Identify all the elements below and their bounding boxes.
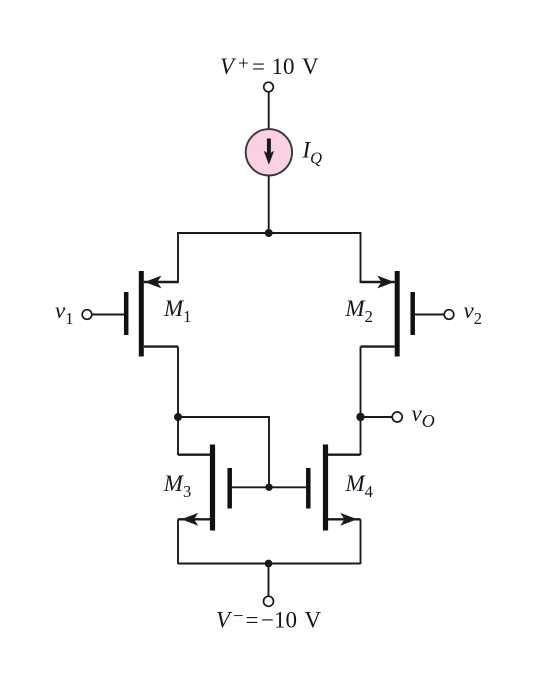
label V+ supply (220, 54, 319, 80)
wire: node down to M3 drain (177, 417, 179, 455)
label V- supply (216, 606, 322, 632)
wire: rail down to M2 source (360, 232, 362, 283)
wire: node across and down to mirror gates (178, 417, 269, 487)
svg-text:V: V (305, 607, 322, 632)
svg-text:V: V (216, 607, 233, 632)
transistor M2 (361, 271, 445, 357)
svg-text:M3: M3 (163, 471, 191, 501)
node: mirror gate tie (265, 484, 272, 491)
terminal vO (392, 412, 402, 422)
svg-text:v2: v2 (464, 298, 482, 328)
svg-text:=: = (246, 607, 259, 632)
svg-text:IQ: IQ (302, 138, 323, 168)
svg-text:V: V (220, 54, 237, 79)
wire: M3 source down to bottom rail (177, 519, 179, 564)
wire: current source to tail node (268, 176, 270, 234)
terminal v2 (444, 310, 454, 320)
wire: M2 drain down to output node (360, 347, 362, 417)
svg-text:−10: −10 (261, 607, 297, 632)
transistor M1 (92, 271, 178, 357)
terminal v1 (82, 310, 92, 320)
node: V- junction (265, 560, 273, 568)
node: tail junction (265, 229, 273, 237)
wire: rail down to M1 source (177, 232, 179, 283)
svg-text:M4: M4 (345, 471, 373, 501)
terminal V+ (264, 82, 274, 92)
wire: M4 source down to bottom rail (360, 519, 362, 564)
svg-text:−: − (233, 606, 244, 627)
wire: output lead (361, 416, 393, 418)
transistor M4 (269, 445, 361, 531)
svg-text:v1: v1 (55, 298, 73, 328)
svg-text:+: + (238, 54, 249, 75)
node: M1 drain / mirror tie (174, 413, 182, 421)
svg-text:M1: M1 (163, 296, 191, 326)
transistor M3 (178, 445, 269, 531)
svg-text:V: V (302, 54, 319, 79)
wire: V+ terminal to current source (268, 92, 270, 130)
wire: M1 drain down to node (177, 347, 179, 417)
svg-text:M2: M2 (344, 296, 372, 326)
node: output (356, 413, 364, 421)
wire: output node down to M4 drain (360, 417, 362, 455)
svg-text:=: = (252, 54, 265, 79)
terminal V- (264, 596, 274, 606)
svg-text:vO: vO (412, 401, 435, 431)
wire: bottom rail horizontal (178, 563, 361, 565)
current source IQ (246, 129, 292, 175)
wire: top rail horizontal (178, 232, 361, 234)
wire: junction to V- terminal (268, 564, 270, 597)
svg-text:10: 10 (272, 54, 295, 79)
